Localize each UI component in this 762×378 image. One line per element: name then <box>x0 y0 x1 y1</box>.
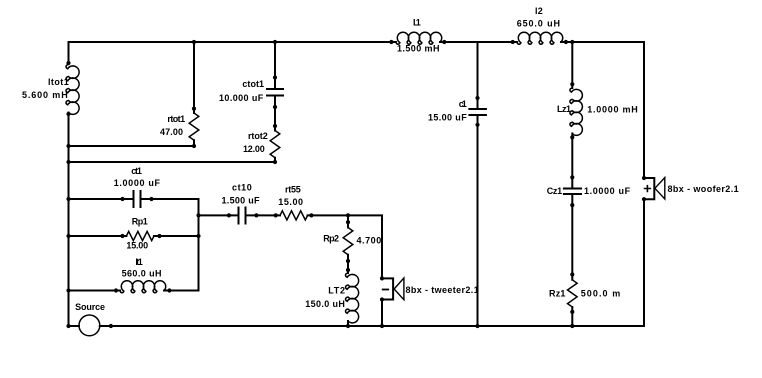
svg-text:ct10: ct10 <box>232 183 252 193</box>
node Rp1 right <box>157 234 161 238</box>
node rail-ctot1 <box>273 40 277 44</box>
node Lz1 top <box>570 82 574 86</box>
svg-text:15.00 uF: 15.00 uF <box>428 113 467 123</box>
node tweeter bottom <box>380 297 384 301</box>
node source right <box>109 324 113 328</box>
svg-text:Cz1: Cz1 <box>547 186 563 196</box>
inductor lt1 <box>120 281 166 293</box>
wire Rp1 row right <box>154 235 199 237</box>
node bus-ct10 <box>196 213 200 217</box>
wire row y146 <box>69 145 195 147</box>
svg-text:LT2: LT2 <box>328 286 345 296</box>
node rt55 right <box>309 213 313 217</box>
wire Rz1 to rail <box>571 307 573 326</box>
svg-text:560.0 uH: 560.0 uH <box>122 268 162 278</box>
capacitor c1 <box>469 109 486 115</box>
svg-text:Rp1: Rp1 <box>132 217 148 227</box>
speaker woofer cone <box>655 178 665 200</box>
svg-text:4.700: 4.700 <box>357 236 382 246</box>
node left y290 <box>66 288 70 292</box>
svg-text:1.0000 uF: 1.0000 uF <box>114 178 161 188</box>
node left y199 <box>66 197 70 201</box>
inductor ltot1 <box>66 65 79 115</box>
inductor L1 <box>396 32 442 44</box>
svg-text:l2: l2 <box>535 6 543 16</box>
node left y146 <box>66 144 70 148</box>
node rtot1 top <box>192 107 196 111</box>
svg-text:Source: Source <box>75 302 105 312</box>
node LT2 rail <box>346 324 350 328</box>
wire source left <box>69 325 80 327</box>
wire ct1 row right <box>141 199 199 290</box>
wire Rp2 top stub <box>347 215 349 227</box>
svg-text:10.000 uF: 10.000 uF <box>219 93 264 103</box>
resistor Rp1 <box>126 231 154 240</box>
svg-text:L1: L1 <box>413 18 421 28</box>
node tweeter rail <box>380 324 384 328</box>
wire ct10-rt55 <box>246 214 281 216</box>
svg-text:1.500 uF: 1.500 uF <box>222 196 260 206</box>
node Rp1 left <box>120 234 124 238</box>
node c1 rail <box>475 324 479 328</box>
wire top rail left <box>69 41 397 43</box>
wire ctot1 branch top <box>274 42 276 89</box>
capacitor ctot1 <box>267 89 283 96</box>
svg-text:500.0 m: 500.0 m <box>581 289 621 299</box>
wire rtot1 branch vertical <box>193 42 195 113</box>
node L1 right <box>442 40 446 44</box>
wire ctot1 to rtot2 <box>274 96 276 131</box>
node tweeter top <box>380 276 384 280</box>
node Lz1 bottom <box>570 135 574 139</box>
wire lt1 row left <box>69 290 121 292</box>
node Rp2 top <box>346 220 350 224</box>
svg-text:15.00: 15.00 <box>278 197 303 207</box>
node woofer top <box>642 176 646 180</box>
resistor rtot1 <box>189 113 199 140</box>
wire woofer branch top <box>643 42 645 178</box>
svg-text:rtot1: rtot1 <box>167 114 185 124</box>
svg-text:Rz1: Rz1 <box>549 289 566 299</box>
speaker woofer box <box>644 178 654 199</box>
svg-text:rtot2: rtot2 <box>248 131 268 141</box>
node rtot2 bottom <box>273 160 277 164</box>
wire rtot1 bottom <box>193 140 195 146</box>
node ltot1 top <box>66 61 70 65</box>
wire left vertical bus <box>68 42 70 64</box>
wire ct10 row from bus <box>199 214 239 216</box>
inductor LT2 <box>346 273 359 323</box>
svg-text:ctot1: ctot1 <box>242 79 264 89</box>
wire Cz1 to Rz1 <box>571 194 573 280</box>
wire LT2 bottom <box>347 321 349 326</box>
svg-text:650.0 uH: 650.0 uH <box>517 19 561 29</box>
node l2 right <box>564 40 568 44</box>
svg-text:ltot1: ltot1 <box>48 77 69 87</box>
svg-text:5.600 mH: 5.600 mH <box>22 90 68 100</box>
svg-text:Rp2: Rp2 <box>323 234 339 244</box>
node Rp2 rail <box>346 213 350 217</box>
tweeter minus sign <box>383 289 389 291</box>
svg-text:ct1: ct1 <box>131 166 142 176</box>
svg-text:8bx - tweeter2.1: 8bx - tweeter2.1 <box>406 285 480 295</box>
woofer plus sign <box>645 186 651 192</box>
resistor rt55 <box>280 211 308 220</box>
node ltot1 bottom <box>66 112 70 116</box>
node L1 left <box>389 40 393 44</box>
resistor Rz1 <box>568 280 578 307</box>
node ct10 right <box>254 213 258 217</box>
node ct1 right <box>149 197 153 201</box>
svg-text:1.0000 mH: 1.0000 mH <box>587 105 638 115</box>
svg-text:1.0000 uF: 1.0000 uF <box>584 186 631 196</box>
node lt1 right <box>167 288 171 292</box>
svg-text:15.00: 15.00 <box>126 241 148 251</box>
resistor rtot2 <box>270 131 280 158</box>
node Rz1 rail <box>570 324 574 328</box>
svg-text:8bx - woofer2.1: 8bx - woofer2.1 <box>668 184 739 194</box>
node woofer bottom <box>642 197 646 201</box>
node lt1 left <box>114 288 118 292</box>
resistor Rp2 <box>343 228 353 255</box>
wire top rail mid <box>440 41 517 43</box>
node ct1 left <box>120 197 124 201</box>
speaker tweeter cone <box>394 278 404 300</box>
wire rt55 to tweeter corner <box>308 215 383 278</box>
node Rz1 bottom <box>570 310 574 314</box>
node ctot1 bottom <box>273 105 277 109</box>
wire woofer to rail <box>643 199 645 326</box>
node rtot1 bottom <box>192 144 196 148</box>
svg-text:12.00: 12.00 <box>243 144 265 154</box>
capacitor ct1 <box>134 191 141 207</box>
node bus-Rp1 <box>196 234 200 238</box>
inductor l2 <box>517 32 563 44</box>
wire rtot2 bottom <box>274 158 276 162</box>
wire row y162 <box>69 161 276 163</box>
svg-text:rt55: rt55 <box>285 185 301 195</box>
wire tweeter to rail <box>381 300 383 327</box>
speaker tweeter box <box>382 278 393 299</box>
node c1 bottom <box>475 123 479 127</box>
node Rz1 top <box>570 272 574 276</box>
node Cz1 bottom <box>570 203 574 207</box>
wire ct1 row left <box>69 198 134 200</box>
source circle <box>79 315 100 336</box>
svg-text:lt1: lt1 <box>135 257 143 267</box>
svg-text:47.00: 47.00 <box>160 127 183 137</box>
svg-text:1.500 mH: 1.500 mH <box>397 44 440 54</box>
wire c1 branch top <box>477 42 479 109</box>
svg-text:Lz1: Lz1 <box>557 104 571 114</box>
node Cz1 top <box>570 175 574 179</box>
node ctot1 top <box>273 75 277 79</box>
svg-text:150.0 uH: 150.0 uH <box>305 299 345 309</box>
node rail-rtot1 <box>192 40 196 44</box>
wire lt1 row right <box>164 290 199 292</box>
wire c1 branch bottom <box>477 115 479 326</box>
node rtot2 top <box>273 124 277 128</box>
node l2 left <box>511 40 515 44</box>
node rt55 left <box>274 213 278 217</box>
node left y236 <box>66 234 70 238</box>
node l2 junction <box>570 40 574 44</box>
wire Lz1 to Cz1 <box>571 134 573 189</box>
node left y162 <box>66 160 70 164</box>
node LT2 top <box>346 268 350 272</box>
wire Rp2-LT2 <box>347 255 349 273</box>
svg-text:c1: c1 <box>459 99 467 109</box>
node c1 top <box>475 96 479 100</box>
node ct10 left <box>227 213 231 217</box>
wire Rp1 row left <box>69 235 127 237</box>
wire Lz1 branch top <box>571 42 573 88</box>
wire bottom rail <box>100 325 644 327</box>
wire top rail right <box>561 41 644 43</box>
capacitor ct10 <box>239 208 246 224</box>
node source left <box>66 324 70 328</box>
node Rp2 bottom <box>346 259 350 263</box>
inductor Lz1 <box>570 88 582 135</box>
capacitor Cz1 <box>564 189 581 195</box>
